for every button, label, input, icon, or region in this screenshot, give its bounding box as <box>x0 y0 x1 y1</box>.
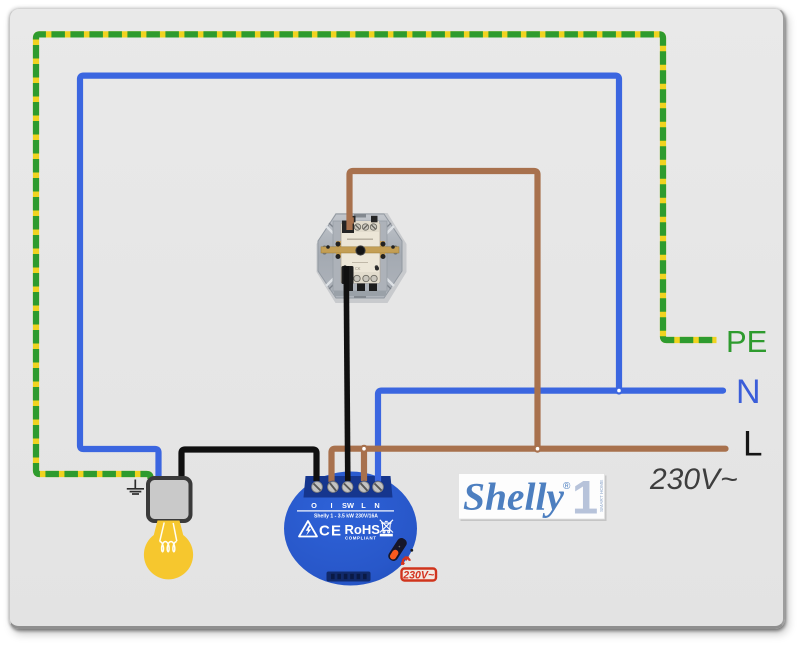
Shelly 1 relay top details <box>297 481 436 582</box>
warning triangle icon <box>299 521 317 537</box>
svg-text:COMPLIANT: COMPLIANT <box>345 536 377 541</box>
wire lamp live black (Shelly O to box) <box>182 450 317 482</box>
red 230V~ label <box>402 569 437 581</box>
red arrow curl <box>403 558 410 564</box>
pointer dots <box>410 549 413 552</box>
wire L drop to L terminal <box>361 449 367 481</box>
terminal screws O I SW L N <box>311 481 385 494</box>
svg-text:SMART HOME: SMART HOME <box>599 480 605 512</box>
junction box <box>148 478 191 521</box>
node N junction <box>616 388 622 394</box>
wire N blue loop (bulb to top to node) <box>80 76 619 479</box>
svg-text:I: I <box>330 501 332 510</box>
wire PE (yellow/green) <box>36 34 717 479</box>
svg-text:230V~: 230V~ <box>402 569 434 581</box>
svg-text:Shelly 1 - 3.5 kW 230V/16A: Shelly 1 - 3.5 kW 230V/16A <box>314 513 378 519</box>
svg-text:®: ® <box>563 481 571 492</box>
svg-text:SW: SW <box>342 501 354 510</box>
ground symbol <box>127 480 144 495</box>
svg-text:230V~: 230V~ <box>649 463 738 496</box>
svg-text:E: E <box>331 523 341 540</box>
svg-text:RoHS: RoHS <box>345 522 381 537</box>
svg-text:C: C <box>319 523 330 540</box>
svg-text:N: N <box>736 373 761 411</box>
svg-text:N: N <box>374 501 379 510</box>
Shelly 1 relay body <box>284 472 417 586</box>
node L junction at terminal drop <box>361 446 367 452</box>
bottom connector <box>327 572 371 582</box>
Shelly logo plate <box>459 471 607 524</box>
svg-text:C€: C€ <box>355 266 361 271</box>
node L junction at switch loop <box>535 446 541 452</box>
svg-text:L: L <box>361 501 366 510</box>
light switch S1 (flush-mount insert photo) <box>317 213 407 303</box>
svg-text:PE: PE <box>726 324 767 359</box>
svg-text:L: L <box>743 425 762 464</box>
svg-text:Shelly: Shelly <box>463 475 564 519</box>
wire SW black (switch to Shelly SW) <box>346 266 348 481</box>
svg-text:1: 1 <box>572 471 598 524</box>
WEEE bin icon <box>380 520 393 533</box>
wire L top loop to switch <box>350 171 538 449</box>
wire L brown horizontal (Shelly I to label) <box>332 449 726 481</box>
terminal labels <box>311 501 380 510</box>
lamp bulb <box>144 521 193 580</box>
wire N horizontal (Shelly N to label) <box>378 391 723 481</box>
reset button <box>386 536 408 562</box>
svg-text:O: O <box>311 501 317 510</box>
